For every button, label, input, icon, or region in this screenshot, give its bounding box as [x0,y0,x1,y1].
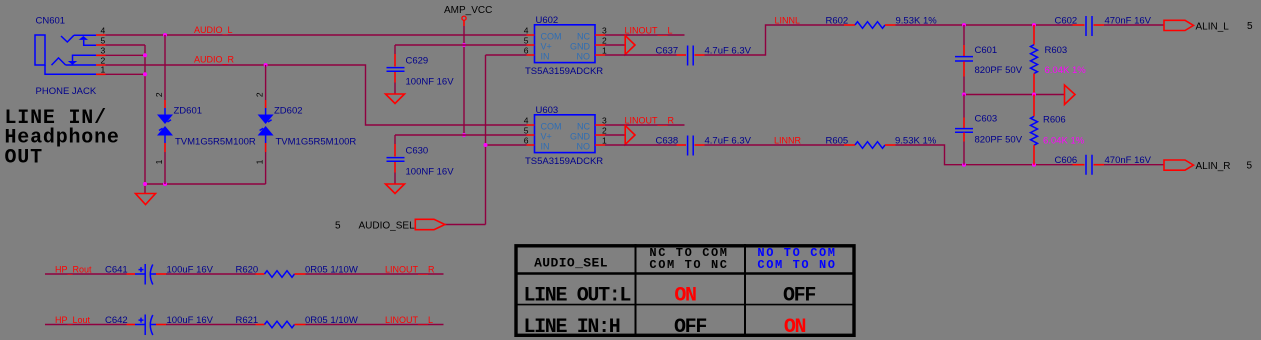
node junction AUDIO_L / ZD601 [163,33,167,37]
svg-text:LINNR: LINNR [774,136,802,146]
svg-text:C601: C601 [975,45,998,56]
svg-text:6.04K 1%: 6.04K 1% [1045,65,1087,76]
capacitor C637 [656,46,752,66]
wire LINOUT__L row end [306,324,444,326]
wire HP_Lout row [45,324,127,326]
title text LINE IN / Headphone OUT [5,107,120,169]
wire R602 to C602 [896,24,1073,26]
power AMP_VCC [444,5,492,137]
svg-text:ON: ON [674,284,696,307]
svg-text:AUDIO_L: AUDIO_L [194,25,233,35]
wire C641 to R620 [166,273,256,275]
wire jack pins 5,3,1 to ground [106,45,146,184]
resistor R621 [236,315,358,328]
svg-text:6: 6 [524,45,529,55]
wire U602 GND stub [605,44,625,46]
svg-text:C606: C606 [1055,155,1078,166]
svg-text:4: 4 [101,25,106,35]
svg-text:OFF: OFF [783,284,815,307]
svg-text:3: 3 [602,25,607,35]
port ALIN_L [1164,20,1194,30]
svg-text:AUDIO_SEL: AUDIO_SEL [534,256,608,271]
svg-text:NO: NO [577,51,591,61]
capacitor C630 [386,135,455,194]
svg-text:LINOUT__R: LINOUT__R [385,264,435,274]
svg-text:LINE IN:H: LINE IN:H [524,316,620,339]
svg-text:4: 4 [524,25,529,35]
svg-text:C641: C641 [105,264,128,275]
resistor R605 [826,136,937,149]
wire V+ rail U602 [395,44,527,46]
svg-text:R621: R621 [236,315,259,326]
wire C638 to LINNR / R605 [705,144,845,146]
svg-text:C602: C602 [1055,16,1078,27]
svg-text:1: 1 [602,45,607,55]
wire V+ rail U603 [395,134,527,136]
svg-text:R605: R605 [826,136,849,147]
svg-text:R603: R603 [1045,45,1068,56]
svg-text:COM TO NC: COM TO NC [649,258,728,272]
jack ring switch arrow (pin 3) [68,61,77,65]
resistor R602 [826,16,938,29]
svg-text:PHONE JACK: PHONE JACK [36,86,97,97]
wire C637 to LINNL [705,25,845,55]
svg-text:2: 2 [602,125,607,135]
resistor R620 [236,264,358,277]
capacitor C602 [1055,16,1152,37]
port ALIN_R [1164,160,1194,170]
svg-text:LINNL: LINNL [775,16,801,26]
svg-text:COM: COM [541,121,562,131]
svg-text:NC: NC [577,31,590,41]
svg-text:5: 5 [335,221,341,232]
svg-text:5: 5 [1247,21,1253,32]
port arrow mid [1065,85,1076,105]
svg-text:U602: U602 [536,15,559,26]
svg-text:ZD602: ZD602 [274,106,303,117]
node junction AUDIO_R / ZD602 [264,63,268,67]
svg-text:2: 2 [255,92,265,97]
svg-text:NO: NO [577,141,591,151]
ground [136,194,156,205]
svg-text:TS5A3159ADCKR: TS5A3159ADCKR [525,156,603,167]
wire AUDIO_SEL net [445,55,527,225]
svg-text:TVM1G5R5M100R: TVM1G5R5M100R [276,137,357,148]
svg-text:3: 3 [101,46,106,56]
wire HP_Rout row [45,273,127,275]
svg-text:AUDIO_R: AUDIO_R [194,55,235,65]
svg-text:100NF 16V: 100NF 16V [406,167,455,178]
svg-text:OUT: OUT [5,146,43,169]
jack tip switch arrow (pin 5) [79,36,88,40]
jack sleeve [45,65,96,74]
capacitor C641 polarized [105,264,214,285]
wire C642 to R621 [166,324,256,326]
svg-text:GND: GND [570,131,591,141]
svg-text:5: 5 [1247,161,1253,172]
resistor R603 [1031,25,1087,95]
svg-text:U603: U603 [536,105,559,116]
svg-text:V+: V+ [541,41,552,51]
jack body [35,35,45,65]
svg-text:2: 2 [154,92,164,97]
svg-text:OFF: OFF [674,316,706,339]
svg-text:ALIN_L: ALIN_L [1196,21,1230,32]
svg-text:COM TO NO: COM TO NO [757,258,836,272]
wire U603 GND stub [605,134,625,136]
port arrow U602 [625,36,635,55]
svg-text:6: 6 [524,135,529,145]
svg-text:HP_Rout: HP_Rout [55,264,92,274]
svg-text:NC: NC [577,121,590,131]
svg-text:1: 1 [602,135,607,145]
wire AUDIO_L [106,34,527,36]
svg-text:COM: COM [541,31,562,41]
svg-text:ALIN_R: ALIN_R [1196,161,1231,172]
capacitor C606 [1055,155,1152,175]
svg-text:LINOUT__R: LINOUT__R [625,116,675,126]
svg-text:C603: C603 [975,114,998,125]
svg-text:3: 3 [602,115,607,125]
svg-text:1: 1 [255,159,265,164]
svg-text:R602: R602 [826,16,849,27]
diode ZD602 [255,65,357,184]
ground under C630 [386,184,405,194]
svg-text:5: 5 [524,35,529,45]
svg-text:LINOUT__L: LINOUT__L [385,315,433,325]
svg-text:R606: R606 [1043,115,1066,126]
jack tip lever [61,35,96,42]
svg-text:2: 2 [602,35,607,45]
svg-text:TVM1G5R5M100R: TVM1G5R5M100R [175,137,256,148]
capacitor C629 [386,45,455,104]
svg-text:C638: C638 [656,136,679,147]
svg-text:ZD601: ZD601 [174,106,203,117]
svg-text:5: 5 [101,35,106,45]
capacitor C638 [656,136,752,156]
svg-text:AMP_VCC: AMP_VCC [444,5,492,16]
port AUDIO_SEL [415,219,445,229]
wire mid rail [964,94,1064,96]
connector CN601 phone jack [35,16,106,98]
resistor R606 [1031,95,1085,165]
ground under C629 [386,94,405,104]
diode ZD601 [154,35,256,184]
svg-text:LINE OUT:L: LINE OUT:L [524,284,631,307]
svg-text:820PF 50V: 820PF 50V [975,65,1023,76]
svg-text:IN: IN [541,51,550,61]
svg-text:C629: C629 [406,56,429,67]
jack ring lever [52,58,97,65]
svg-text:C630: C630 [406,146,429,157]
svg-text:TS5A3159ADCKR: TS5A3159ADCKR [525,66,603,77]
svg-text:1: 1 [101,65,106,75]
capacitor C603 [955,95,1023,165]
wire C606 to ALIN_R [1104,164,1164,166]
op-amp U602 analog switch [524,15,607,77]
wire LINOUT__R row end [306,273,444,275]
capacitor C601 [955,25,1023,95]
svg-text:6.04K 1%: 6.04K 1% [1043,136,1085,147]
svg-text:GND: GND [570,41,591,51]
wire LINOUT__L (U602 NC) [605,34,685,36]
svg-text:820PF 50V: 820PF 50V [975,135,1023,146]
wire ground bus [145,184,266,194]
svg-text:LINOUT__L: LINOUT__L [625,26,673,36]
wire C602 to ALIN_L [1104,24,1164,26]
wire AUDIO_R [106,65,527,125]
svg-text:C637: C637 [656,46,679,57]
svg-text:ON: ON [784,316,806,339]
truth table [515,244,856,339]
wire U602 NO to C637 [605,54,677,56]
wire U603 NO to C638 [605,144,677,146]
svg-text:CN601: CN601 [36,16,66,27]
op-amp U603 analog switch [524,105,607,167]
svg-text:HP_Lout: HP_Lout [55,315,91,325]
svg-text:V+: V+ [541,131,552,141]
capacitor C642 polarized [105,315,214,336]
svg-text:R620: R620 [236,264,259,275]
wire R605 to bottom rail [896,145,1073,165]
svg-text:1: 1 [154,159,164,164]
port arrow U603 [625,126,635,145]
svg-text:5: 5 [524,125,529,135]
wire LINOUT__R (U603 NC) [605,124,685,126]
pin stubs [96,35,106,74]
svg-text:AUDIO_SEL: AUDIO_SEL [359,221,416,232]
svg-text:C642: C642 [105,315,128,326]
svg-text:4: 4 [524,115,529,125]
svg-text:IN: IN [541,141,550,151]
svg-text:100NF 16V: 100NF 16V [406,77,455,88]
